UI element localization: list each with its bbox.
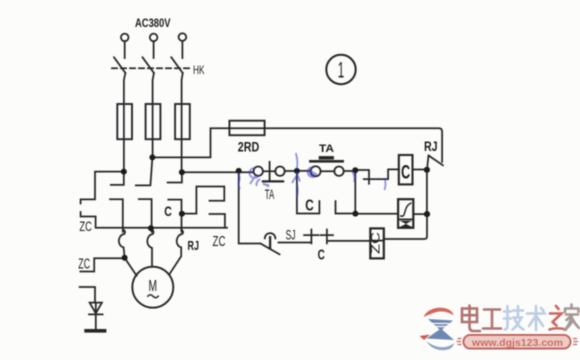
svg-text:C: C (164, 204, 172, 219)
svg-text:TA: TA (265, 187, 275, 202)
svg-text:ZC: ZC (213, 234, 226, 250)
svg-text:C: C (318, 247, 326, 263)
svg-text:HK: HK (193, 63, 205, 77)
svg-text:2RD: 2RD (238, 140, 260, 155)
svg-text:SJ: SJ (286, 226, 296, 242)
svg-text:ZC: ZC (79, 218, 92, 234)
svg-text:1: 1 (338, 58, 345, 83)
svg-text:RJ: RJ (188, 238, 200, 253)
svg-text:C: C (401, 163, 410, 184)
svg-text:TA: TA (319, 143, 334, 155)
svg-text:M: M (149, 278, 158, 295)
svg-text:www.dgjs123.com: www.dgjs123.com (471, 337, 563, 349)
svg-text:ZC: ZC (369, 232, 383, 254)
svg-text:RJ: RJ (424, 139, 438, 154)
svg-text:AC380V: AC380V (135, 18, 171, 30)
svg-text:ZC: ZC (78, 257, 90, 273)
svg-text:C: C (305, 198, 314, 215)
